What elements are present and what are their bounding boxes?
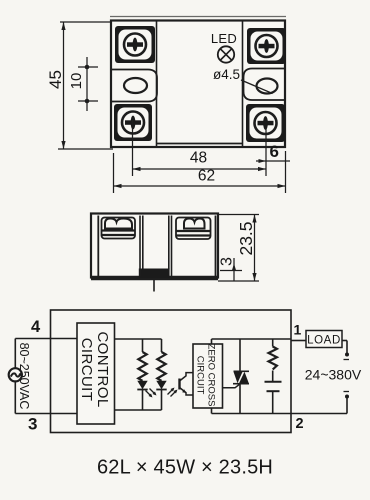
svg-text:LOAD: LOAD bbox=[307, 335, 341, 347]
svg-text:ø4.5: ø4.5 bbox=[213, 67, 240, 82]
svg-text:6: 6 bbox=[270, 142, 279, 161]
svg-text:23.5: 23.5 bbox=[236, 221, 256, 255]
svg-text:3: 3 bbox=[28, 415, 37, 434]
svg-text:4: 4 bbox=[31, 318, 41, 336]
svg-text:62L × 45W × 23.5H: 62L × 45W × 23.5H bbox=[97, 457, 273, 479]
svg-text:80~250VAC: 80~250VAC bbox=[17, 343, 31, 410]
svg-text:62: 62 bbox=[198, 168, 215, 185]
svg-text:24~380V: 24~380V bbox=[305, 367, 362, 383]
svg-text:1: 1 bbox=[294, 322, 302, 338]
svg-text:48: 48 bbox=[190, 150, 207, 167]
svg-text:LED: LED bbox=[211, 31, 237, 46]
svg-text:3: 3 bbox=[219, 257, 236, 266]
svg-text:CONTROLCIRCUIT: CONTROLCIRCUIT bbox=[78, 331, 111, 407]
svg-text:45: 45 bbox=[46, 70, 65, 89]
svg-text:10: 10 bbox=[68, 73, 85, 90]
svg-text:2: 2 bbox=[296, 416, 304, 432]
